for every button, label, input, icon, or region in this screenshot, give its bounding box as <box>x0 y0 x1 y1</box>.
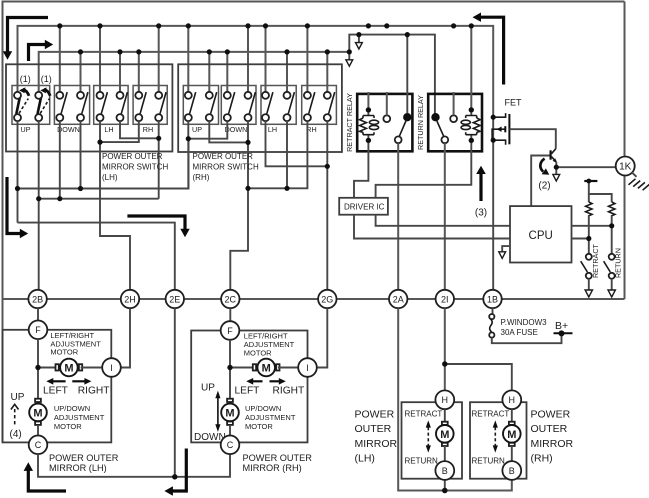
svg-text:UP: UP <box>11 392 25 403</box>
svg-text:MIRROR (RH): MIRROR (RH) <box>243 463 302 473</box>
svg-text:2B: 2B <box>32 294 43 304</box>
svg-text:MOTOR: MOTOR <box>245 422 273 431</box>
svg-text:POWER OUTER: POWER OUTER <box>243 453 313 463</box>
bus2 end stub open arrow <box>348 52 350 60</box>
svg-text:MIRROR: MIRROR <box>531 438 574 450</box>
svg-text:(RH): (RH) <box>531 453 553 465</box>
sub-box DOWN (LH) <box>54 86 89 125</box>
B circle LH <box>435 461 454 480</box>
connector row line <box>3 298 625 300</box>
junction (287,51.9) <box>284 49 289 54</box>
svg-text:POWER OUTER: POWER OUTER <box>193 152 254 161</box>
svg-text:RIGHT: RIGHT <box>273 385 305 396</box>
left/right adjustment motor LH <box>56 359 83 377</box>
svg-text:LH: LH <box>104 125 113 134</box>
wire DOWN2 down to line1 <box>80 121 82 188</box>
sub-box RH (LH) <box>133 86 167 125</box>
junction (561.5,333.4) <box>559 330 565 336</box>
CPU box <box>510 206 572 262</box>
junction (471.3,140.4) <box>469 138 474 143</box>
svg-text:C: C <box>35 440 42 450</box>
line1 <box>18 141 189 189</box>
sub-box RH (RH) <box>302 86 337 125</box>
junction (248,142.4) <box>245 140 250 145</box>
svg-text:B: B <box>442 466 448 476</box>
svg-text:UP: UP <box>21 125 31 134</box>
2G to I (RH) jog <box>317 308 327 367</box>
svg-text:M: M <box>262 363 271 375</box>
CPU left stub open arrow <box>502 246 510 251</box>
wire UP2 down to 2B <box>38 121 40 290</box>
svg-text:LH: LH <box>268 125 277 134</box>
junction (230,367.5) <box>227 365 232 370</box>
svg-text:RETRACT RELAY: RETRACT RELAY <box>345 93 354 152</box>
wire LH1(RH) jog to RH2 vertical <box>266 121 328 166</box>
svg-text:M: M <box>440 429 449 441</box>
svg-text:30A FUSE: 30A FUSE <box>501 328 538 337</box>
junction (248,188.3) <box>245 186 250 191</box>
M to B wires <box>445 446 512 461</box>
wire UP1(RH) through to line1 corner <box>187 121 189 188</box>
svg-text:M: M <box>225 408 234 420</box>
svg-text:2C: 2C <box>225 294 237 304</box>
switch LH-1 (LH box) <box>97 92 108 121</box>
svg-text:RH: RH <box>143 125 153 134</box>
resistor outputs <box>589 216 612 254</box>
vertical feeds RH switch box <box>187 26 189 92</box>
junction (494.1,117.2) <box>491 115 496 120</box>
RETURN sense switch <box>604 254 616 297</box>
junction (327.3,166.3) <box>325 164 330 169</box>
svg-text:MIRROR SWITCH: MIRROR SWITCH <box>193 163 259 172</box>
junction (120,51.9) <box>117 49 122 54</box>
line2 stub open arrow at 358.9 <box>358 35 360 43</box>
dashed arrow RH box <box>494 427 496 446</box>
retract motor M LH <box>436 422 454 446</box>
H to M wires <box>445 409 512 425</box>
return relay feeds <box>453 92 455 115</box>
wire DOWN2(RH) down jog to 2C <box>230 121 248 290</box>
svg-text:2A: 2A <box>393 294 404 304</box>
switch RH-1 (LH box) <box>135 92 146 121</box>
power outer mirror switch (LH) big box <box>6 64 172 151</box>
svg-text:2G: 2G <box>321 294 333 304</box>
power outer mirror (RH) assembly box <box>191 331 307 443</box>
junction (188.3,25.9) <box>186 23 191 28</box>
switch DOWN-2 (LH box) <box>77 92 88 121</box>
svg-text:M: M <box>64 363 73 375</box>
sub-box DOWN (RH) <box>221 86 256 125</box>
svg-text:RETRACT: RETRACT <box>591 243 600 278</box>
svg-text:B+: B+ <box>555 320 568 332</box>
retract coil to driver ic <box>354 142 368 198</box>
sub-box LH (LH) <box>94 86 128 125</box>
junction (368.4,140.4) <box>366 138 371 143</box>
cpu right wires <box>572 226 612 239</box>
svg-text:RETURN: RETURN <box>472 456 506 465</box>
dashed arrow LH box <box>427 427 429 446</box>
(3) arrow <box>479 173 482 202</box>
2B to F <box>37 308 39 321</box>
junction (368.4,109.9) <box>366 107 371 112</box>
2C to F (RH) <box>229 308 231 321</box>
switch LH-2 (RH box) <box>284 92 295 121</box>
RETRACT RELAY box <box>357 94 412 151</box>
wire RH2(RH) down to 2G <box>326 121 328 290</box>
ground at 1K <box>632 172 637 177</box>
svg-text:H: H <box>509 395 516 405</box>
switch LH-1 (RH box) <box>262 92 273 121</box>
svg-text:C: C <box>227 440 234 450</box>
retract motor M RH <box>503 422 521 446</box>
svg-text:RETURN: RETURN <box>405 456 439 465</box>
junction (588.8,181) <box>586 179 591 184</box>
junction (158.7,138.3) <box>156 136 161 141</box>
H circle RH <box>502 390 521 409</box>
2I down to H <box>444 308 446 390</box>
switch RH-1 (RH box) <box>304 92 315 121</box>
wire LH2 to RH2 <box>120 121 159 138</box>
svg-text:RETRACT: RETRACT <box>472 410 510 419</box>
return contact to 2I <box>444 143 446 290</box>
svg-text:(1): (1) <box>41 74 52 84</box>
driver ic to cpu wires <box>354 215 510 239</box>
line3 to 2E <box>18 223 175 290</box>
thick arrow C top-right <box>480 17 504 84</box>
switch DOWN-1 (LH box) <box>56 92 67 121</box>
svg-text:I: I <box>110 363 113 373</box>
up/down adjustment motor LH <box>29 399 47 425</box>
FET output to transistor <box>509 129 555 149</box>
vertical feeds LH switch box <box>59 26 61 92</box>
junction (349.3,51.9) <box>347 49 352 54</box>
junction (386.8,25.9) <box>384 23 389 28</box>
junction (59.8,25.9) <box>57 23 62 28</box>
svg-text:(4): (4) <box>10 429 22 440</box>
DRIVER IC box <box>339 198 388 215</box>
svg-text:I: I <box>306 363 309 373</box>
line2 <box>39 198 159 200</box>
junction (38,367.5) <box>35 365 40 370</box>
svg-text:1K: 1K <box>619 162 632 173</box>
svg-text:FET: FET <box>505 98 523 108</box>
wire RH1 to LH1 <box>100 121 139 142</box>
junction (17.5,188.5) <box>15 186 20 191</box>
svg-text:H: H <box>442 395 449 405</box>
junction (100,142.1) <box>97 140 102 145</box>
fuse P.WINDOW3 <box>489 314 561 343</box>
B+ terminal <box>554 332 573 334</box>
svg-text:LEFT: LEFT <box>235 385 260 396</box>
bus line 2 <box>39 52 350 92</box>
2E down to mirror common <box>174 308 176 477</box>
svg-text:(LH): (LH) <box>102 173 118 182</box>
switch DOWN-2 (RH box) <box>245 92 256 121</box>
svg-text:M: M <box>507 429 516 441</box>
svg-text:POWER: POWER <box>355 409 395 421</box>
svg-text:MOTOR: MOTOR <box>50 348 78 357</box>
1K circle <box>616 157 635 176</box>
wire to motor <box>38 367 58 369</box>
bus line 1 <box>18 26 494 114</box>
svg-text:(3): (3) <box>475 208 487 219</box>
svg-text:(RH): (RH) <box>193 173 210 182</box>
junction (407.3,34.6) <box>405 32 410 37</box>
junction (358.9,34.6) <box>356 32 361 37</box>
RETURN RELAY box <box>428 94 482 151</box>
FET symbol <box>492 113 509 145</box>
emitter stub open arrow <box>555 167 557 174</box>
emitter to 1K <box>556 166 616 168</box>
svg-text:UP: UP <box>192 125 202 134</box>
thick arrow B <box>29 45 47 62</box>
svg-text:DRIVER IC: DRIVER IC <box>344 203 385 212</box>
svg-text:P.WINDOW3: P.WINDOW3 <box>501 318 548 327</box>
motor to I <box>81 367 103 369</box>
junction (368.4,25.9) <box>366 23 371 28</box>
junction (327.3,51.9) <box>325 49 330 54</box>
svg-text:OUTER: OUTER <box>355 423 392 435</box>
junction (138.8,51.9) <box>136 49 141 54</box>
svg-text:POWER: POWER <box>531 409 571 421</box>
RETRACT sense switch <box>581 254 593 297</box>
svg-text:POWER OUTER: POWER OUTER <box>49 453 119 463</box>
junction (471.3,25.9) <box>469 23 474 28</box>
svg-text:UP: UP <box>201 382 215 393</box>
return relay coil <box>461 111 480 141</box>
switch RH-2 (RH box) <box>324 92 335 121</box>
2H to I jog <box>121 308 130 367</box>
svg-text:1B: 1B <box>487 294 498 304</box>
motor down to C <box>37 425 39 436</box>
connector circles row <box>28 290 501 308</box>
junction (158.7,25.9) <box>156 23 161 28</box>
svg-text:MIRROR SWITCH: MIRROR SWITCH <box>102 163 168 172</box>
LEFT arrow RH <box>250 380 262 382</box>
wire UP2(RH) to DOWN2(RH) <box>209 121 248 142</box>
svg-text:MOTOR: MOTOR <box>244 348 272 357</box>
RIGHT arrow RH <box>270 380 282 382</box>
wire DOWN1(RH) to UP1(RH) <box>188 121 227 139</box>
frame wire 1K to connector line <box>624 176 626 300</box>
svg-text:LEFT: LEFT <box>43 385 68 396</box>
activated switch UP with (1) <box>35 87 50 121</box>
svg-text:2H: 2H <box>124 294 136 304</box>
resistor pair feed <box>589 181 612 202</box>
B circle RH <box>502 461 521 480</box>
svg-text:B: B <box>509 466 515 476</box>
retract relay contact <box>383 113 411 143</box>
C wire to common <box>38 454 230 477</box>
junction (494.1,140.2) <box>491 138 496 143</box>
junction (188.3,138.7) <box>186 136 191 141</box>
junction (100,25.9) <box>97 23 102 28</box>
retract relay coil <box>360 111 379 141</box>
svg-text:RIGHT: RIGHT <box>78 385 110 396</box>
junction (471.3,109.9) <box>469 107 474 112</box>
svg-text:CPU: CPU <box>529 230 553 242</box>
svg-text:RETRACT: RETRACT <box>405 410 443 419</box>
junction (59.8,198.7) <box>57 196 62 201</box>
C circle RH <box>221 436 240 455</box>
LEFT arrow LH <box>51 380 66 382</box>
svg-text:2I: 2I <box>441 294 449 304</box>
curved arrow (2) <box>540 159 544 172</box>
svg-text:RETURN RELAY: RETURN RELAY <box>416 95 425 150</box>
supply bar <box>584 180 597 182</box>
svg-text:MOTOR: MOTOR <box>54 422 82 431</box>
switch UP-2 (RH box) <box>206 92 217 121</box>
svg-text:2E: 2E <box>169 294 180 304</box>
junction (38.7,198.7) <box>36 196 41 201</box>
thick arrow A top-left <box>8 18 49 53</box>
frame right wire to 1K <box>624 2 626 157</box>
thick arrow E middle <box>127 216 185 230</box>
sub-box LH (RH) <box>261 86 296 125</box>
junction (174.8,476.8) <box>172 474 177 479</box>
svg-text:ADJUSTMENT: ADJUSTMENT <box>54 413 105 422</box>
svg-text:OUTER: OUTER <box>531 423 568 435</box>
segment B <box>248 121 307 188</box>
svg-text:UP/DOWN: UP/DOWN <box>245 404 281 413</box>
switch DOWN-1 (RH box) <box>224 92 235 121</box>
power outer mirror (LH) assembly box <box>3 330 112 443</box>
junction (307.4,25.9) <box>305 23 310 28</box>
junction (444.8,364) <box>442 361 447 366</box>
svg-text:M: M <box>33 408 42 420</box>
junction (248,25.9) <box>245 23 250 28</box>
svg-text:MIRROR: MIRROR <box>355 438 398 450</box>
wire RH2 down to line2 <box>158 121 160 199</box>
bottom wire dot <box>444 480 446 490</box>
switch LH-2 (LH box) <box>117 92 128 121</box>
sub-box UP (LH) <box>12 86 50 125</box>
up/down adjustment motor RH <box>221 399 239 425</box>
thick arrow F bottom-left <box>28 470 66 492</box>
junction (287,188.3) <box>284 186 289 191</box>
H circle LH <box>435 390 454 409</box>
retract motor box RH <box>470 402 527 479</box>
return coil to driver ic <box>376 142 472 198</box>
wire DOWN1 down to line2 <box>59 121 61 199</box>
wire UP1 down to line1 <box>17 121 19 223</box>
resistor R right <box>609 202 615 216</box>
switch RH-2 (LH box) <box>155 92 166 121</box>
base wire to CPU <box>531 156 549 207</box>
svg-text:POWER OUTER: POWER OUTER <box>102 152 163 161</box>
resistor R left <box>586 202 592 216</box>
2A down to bottom wire <box>398 308 512 490</box>
junction (80.5,188.5) <box>78 186 83 191</box>
retract relay feeds <box>367 92 369 108</box>
svg-text:UP/DOWN: UP/DOWN <box>54 404 90 413</box>
sub-box UP (RH) <box>183 86 218 125</box>
1B to fuse <box>492 308 494 314</box>
svg-text:F: F <box>35 325 41 335</box>
junction (209.3,51.9) <box>207 49 212 54</box>
thick arrow G bottom-middle <box>172 449 187 492</box>
F circle RH <box>221 321 240 340</box>
junction (453.6,25.9) <box>451 23 456 28</box>
junction (227.3,51.9) <box>225 49 230 54</box>
junction (444.8,490.5) <box>442 488 448 494</box>
retract motor box LH <box>402 402 463 479</box>
svg-text:(1): (1) <box>20 74 31 84</box>
FET wire from bus1 <box>492 114 494 290</box>
2I branch to RH retract H <box>445 364 512 391</box>
power outer mirror switch (RH) big box <box>178 64 342 152</box>
I circle RH <box>298 358 317 377</box>
junction (611.7,225.8) <box>609 223 614 228</box>
junction (556.3,167.2) <box>554 165 559 170</box>
wire LH1 down jog to 2H <box>100 121 130 290</box>
return relay contact <box>431 113 457 143</box>
thick arrow D left-middle <box>7 177 21 234</box>
junction (265.5,25.9) <box>263 23 268 28</box>
transistor Q <box>551 149 557 168</box>
retract contact to 2A <box>397 143 399 290</box>
svg-text:(2): (2) <box>538 181 550 192</box>
junction (588.8,238.5) <box>586 236 591 241</box>
svg-text:MIRROR (LH): MIRROR (LH) <box>49 463 107 473</box>
wire LH2(RH) down to segment B <box>286 121 288 188</box>
C circle LH <box>29 436 48 455</box>
junction (80.5,51.9) <box>78 49 83 54</box>
I circle LH <box>102 358 121 377</box>
svg-text:(LH): (LH) <box>355 453 375 465</box>
svg-text:ADJUSTMENT: ADJUSTMENT <box>245 413 296 422</box>
switch UP-1 (RH box) <box>185 92 196 121</box>
F circle LH <box>29 321 48 340</box>
svg-text:F: F <box>227 326 233 336</box>
F down wire <box>37 339 39 403</box>
activated switch UP with (1) <box>14 87 29 121</box>
svg-text:RETURN: RETURN <box>614 248 623 278</box>
left/right adjustment motor RH <box>253 359 280 377</box>
line2 upper right <box>349 35 435 114</box>
RIGHT arrow LH <box>72 380 87 382</box>
